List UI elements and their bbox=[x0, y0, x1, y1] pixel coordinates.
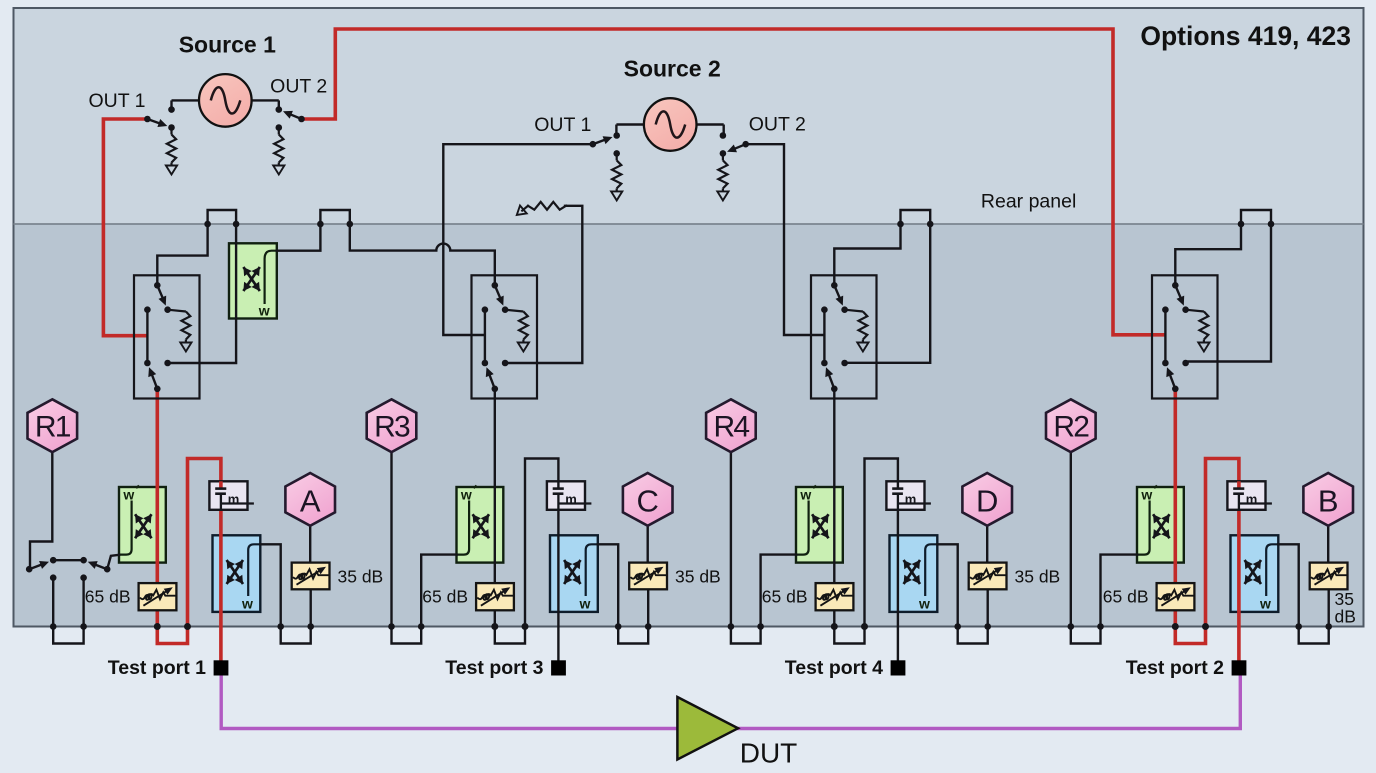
svg-text:dB: dB bbox=[1335, 607, 1356, 627]
front-panel jumper loop (R2 path) bbox=[1071, 627, 1101, 644]
front-panel jumper loop (section 4 source path) bbox=[1175, 627, 1205, 644]
pulse modulator M4 bbox=[1227, 481, 1272, 510]
svg-text:Test port 4: Test port 4 bbox=[785, 657, 883, 679]
svg-text:35 dB: 35 dB bbox=[1015, 566, 1061, 586]
wire: R4 reference tap to coupled port (section 3) bbox=[730, 452, 732, 627]
svg-text:w: w bbox=[460, 486, 472, 502]
switch: Source 2 OUT 2 selector with termination bbox=[717, 132, 749, 200]
front-panel jumper loop (D receiver path) bbox=[958, 627, 988, 644]
svg-text:65 dB: 65 dB bbox=[422, 586, 468, 606]
wire: jumper J4 left leg to port-2 transfer-switch input bbox=[1175, 224, 1241, 283]
coupler: test-port coupler (green, section 1) bbox=[119, 485, 166, 562]
wire: jumper to B attenuator bbox=[1327, 589, 1329, 626]
wire: riser to receiver-coupler chain (section 4) bbox=[1206, 459, 1239, 661]
svg-text:D: D bbox=[976, 483, 998, 518]
svg-text:m: m bbox=[1246, 491, 1258, 506]
receiver tag C (hexagon) bbox=[623, 473, 673, 526]
wire: switch output through coupler and 65 dB step attenuator (section 3) bbox=[833, 391, 835, 627]
wire: receiver coupler coupled port to B attenuator (section 4) bbox=[1278, 544, 1298, 626]
svg-text:Source 2: Source 2 bbox=[624, 56, 721, 82]
wire: link between throw contacts bbox=[53, 559, 83, 561]
front-panel jumper loop (R4 path) bbox=[731, 627, 761, 644]
receiver tag R2 (hexagon) bbox=[1046, 399, 1096, 452]
receiver tag A (hexagon) bbox=[285, 473, 335, 526]
wire: front-panel posts below R1 selector with jumper loop bbox=[50, 574, 87, 643]
svg-text:m: m bbox=[905, 491, 917, 506]
attenuator 65 dB (section 1) bbox=[139, 583, 177, 610]
svg-text:Test port 3: Test port 3 bbox=[445, 657, 543, 679]
coupler: test-port coupler (green, section 2) bbox=[457, 485, 504, 562]
svg-text:OUT 2: OUT 2 bbox=[270, 76, 327, 98]
attenuator 65 dB (section 4) bbox=[1157, 583, 1195, 610]
transfer switch SW3 (port 4) bbox=[811, 275, 877, 398]
coupler U1 upper reference coupler (section 1, green) bbox=[229, 243, 277, 318]
svg-text:OUT 1: OUT 1 bbox=[88, 90, 145, 112]
svg-text:w: w bbox=[918, 596, 930, 612]
test port connector (Test port 2) bbox=[1232, 660, 1247, 675]
node: front-panel jumper posts (section 3 source path) bbox=[831, 623, 838, 630]
front-panel jumper loop (section 2 source path) bbox=[495, 627, 525, 644]
test port connector (Test port 4) bbox=[891, 660, 906, 675]
receiver tag R3 (hexagon) bbox=[367, 399, 417, 452]
pulse modulator M3 bbox=[886, 481, 931, 510]
wire: riser to receiver-coupler chain (section 2) bbox=[525, 459, 558, 661]
coupler: receiver coupler (blue, section 3) bbox=[890, 535, 938, 612]
wire: R3 reference tap to coupled port (section 2) bbox=[390, 452, 392, 627]
wire: D hexagon to attenuator bbox=[986, 524, 988, 563]
receiver tag R1 (hexagon) bbox=[28, 399, 78, 452]
attenuator 35 dB (section 4) bbox=[1310, 563, 1348, 590]
wire: receiver coupler coupled port to D attenuator (section 3) bbox=[937, 544, 957, 626]
signal source Source 1 bbox=[172, 74, 279, 127]
switch: R1 receiver selector pole b bbox=[88, 561, 111, 572]
wire: R2 reference tap to coupled port (section 4) bbox=[1070, 452, 1072, 627]
switch: Source 1 OUT 1 selector with termination bbox=[144, 106, 177, 174]
wire: red path from Source 1 OUT 1 down to port-1 transfer switch bbox=[103, 119, 147, 336]
svg-text:65 dB: 65 dB bbox=[762, 586, 808, 606]
wire: black feed Source 2 OUT 2 to port-4 transfer switch bbox=[746, 144, 823, 335]
wire: DUT output cable to Test port 2 (purple) bbox=[737, 675, 1240, 729]
wire: receiver coupler coupled port to C attenuator (section 2) bbox=[598, 544, 618, 626]
wire: riser to receiver-coupler chain (section 1) bbox=[188, 459, 221, 661]
wire: A hexagon to attenuator bbox=[309, 524, 311, 563]
svg-text:DUT: DUT bbox=[740, 737, 798, 768]
coupler: test-port coupler (green, section 3) bbox=[796, 485, 843, 562]
wire: coupled port of U1 to rear-panel jumper J2 bbox=[277, 224, 321, 251]
node: selector throw B bbox=[80, 557, 87, 564]
wire: R3 jumper riser to coupler coupled port bbox=[421, 555, 456, 627]
svg-text:OUT 1: OUT 1 bbox=[534, 114, 591, 136]
svg-text:OUT 2: OUT 2 bbox=[749, 114, 806, 136]
svg-text:A: A bbox=[300, 483, 321, 518]
coupler: receiver coupler (blue, section 1) bbox=[213, 535, 261, 612]
transfer switch SW1 (port 1) bbox=[134, 275, 200, 398]
attenuator 35 dB (section 3) bbox=[969, 563, 1007, 590]
test port connector (Test port 1) bbox=[214, 660, 229, 675]
attenuator 35 dB (section 2) bbox=[629, 563, 667, 590]
svg-text:w: w bbox=[122, 486, 134, 502]
coupler: receiver coupler (blue, section 4) bbox=[1231, 535, 1279, 612]
wire: receiver coupler coupled port to A attenuator (section 1) bbox=[260, 544, 280, 626]
wire: jumper J4 right leg to port-2 switch common bbox=[1189, 224, 1272, 362]
wire: jumper J1 right leg through reference coupler U1 to switch common bbox=[171, 224, 237, 363]
transfer switch SW2 (port 3) bbox=[472, 275, 538, 398]
front-panel jumper loop (section 1 source path) bbox=[157, 627, 187, 644]
receiver tag D (hexagon) bbox=[962, 473, 1012, 526]
front-panel jumper loop (B receiver path) bbox=[1299, 627, 1329, 644]
switch: Source 2 OUT 1 selector with termination bbox=[590, 132, 623, 200]
pulse modulator M2 bbox=[547, 481, 592, 510]
front-panel jumper loop (R3 path) bbox=[392, 627, 422, 644]
front-panel jumper loop (C receiver path) bbox=[618, 627, 648, 644]
switch: R1 receiver selector pole a bbox=[26, 561, 49, 573]
front-panel jumper loop (A receiver path) bbox=[281, 627, 311, 644]
svg-text:Test port 2: Test port 2 bbox=[1126, 657, 1224, 679]
svg-text:35 dB: 35 dB bbox=[338, 566, 384, 586]
wire: switch output through coupler and 65 dB step attenuator (section 4) bbox=[1174, 391, 1178, 627]
node: selector throw A bbox=[50, 557, 57, 564]
coupler: test-port coupler (green, section 4) bbox=[1137, 485, 1184, 562]
amplifier DUT bbox=[677, 697, 738, 760]
wire: R1 hexagon lead to receiver selector switch bbox=[30, 452, 52, 566]
svg-text:w: w bbox=[799, 486, 811, 502]
svg-text:w: w bbox=[579, 596, 591, 612]
svg-text:R2: R2 bbox=[1053, 411, 1089, 444]
wire: jumper J3 right leg to port-4 switch common bbox=[848, 224, 931, 363]
wire: jumper J1 left leg to transfer-switch input bbox=[157, 224, 207, 283]
front-panel jumper loop (section 3 source path) bbox=[834, 627, 864, 644]
wire: jumper J3 left leg to port-4 transfer-switch input bbox=[834, 224, 900, 283]
rear-panel jumper J2 (section 1/2 link) bbox=[320, 210, 349, 224]
svg-text:C: C bbox=[637, 483, 659, 518]
svg-text:w: w bbox=[1259, 596, 1271, 612]
wire: jumper J2 to port-3 transfer-switch input (hops over Source 2 OUT 1 feed) bbox=[350, 224, 495, 283]
coupler: receiver coupler (blue, section 2) bbox=[550, 535, 598, 612]
svg-text:w: w bbox=[258, 303, 270, 319]
wire: jumper to A attenuator bbox=[310, 589, 312, 626]
attenuator 65 dB (section 2) bbox=[476, 583, 514, 610]
wire: R2 jumper riser to coupler coupled port bbox=[1101, 555, 1138, 627]
receiver tag R4 (hexagon) bbox=[706, 399, 756, 452]
wire: DUT input cable from Test port 1 (purple) bbox=[221, 674, 678, 729]
svg-text:m: m bbox=[565, 491, 577, 506]
svg-text:m: m bbox=[228, 491, 240, 506]
attenuator 35 dB (section 1) bbox=[292, 563, 330, 590]
svg-text:Test port 1: Test port 1 bbox=[108, 657, 206, 679]
svg-text:Rear panel: Rear panel bbox=[981, 191, 1076, 213]
wire: jumper to C attenuator bbox=[647, 589, 649, 626]
wire: C hexagon to attenuator bbox=[647, 524, 649, 563]
wire: riser to receiver-coupler chain (section 3) bbox=[865, 459, 898, 661]
svg-text:w: w bbox=[241, 596, 253, 612]
wire: switch output through coupler and 65 dB step attenuator (section 2) bbox=[494, 391, 496, 627]
resistor: rear-panel termination (section 2) bbox=[528, 202, 566, 210]
receiver tag B (hexagon) bbox=[1303, 473, 1353, 526]
wire: R4 jumper riser to coupler coupled port bbox=[761, 555, 796, 627]
switch: Source 1 OUT 2 selector with termination bbox=[273, 106, 305, 174]
rear-panel jumper J1 (section 1) bbox=[208, 210, 237, 224]
rear-panel jumper J3 (section 3) bbox=[901, 210, 931, 224]
rear-panel jumper J4 (section 4) bbox=[1241, 210, 1271, 224]
svg-text:65 dB: 65 dB bbox=[1103, 586, 1149, 606]
svg-text:R4: R4 bbox=[714, 411, 750, 444]
signal source Source 2 bbox=[616, 98, 723, 151]
wire: black feed Source 2 OUT 1 to port-3 transfer switch bbox=[443, 144, 593, 335]
svg-text:35 dB: 35 dB bbox=[675, 566, 721, 586]
transfer switch SW4 (port 2) bbox=[1152, 275, 1218, 398]
wire: B hexagon to attenuator bbox=[1327, 524, 1329, 563]
test port connector (Test port 3) bbox=[551, 660, 566, 675]
node: front-panel jumper posts (section 4 source path) bbox=[1172, 623, 1179, 630]
wire: jumper to D attenuator bbox=[987, 589, 989, 626]
svg-text:R3: R3 bbox=[374, 411, 410, 444]
svg-text:R1: R1 bbox=[35, 411, 71, 444]
node: front-panel jumper posts (section 1 source path) bbox=[154, 623, 161, 630]
svg-text:Options 419, 423: Options 419, 423 bbox=[1140, 21, 1351, 51]
wire: red path from Source 1 OUT 2 along top edge down to port-2 transfer switch bbox=[302, 29, 1164, 335]
svg-text:w: w bbox=[1140, 486, 1152, 502]
wire: rear termination to port-3 switch common bbox=[508, 206, 582, 363]
node: front-panel jumper posts (section 2 source path) bbox=[491, 623, 498, 630]
svg-text:65 dB: 65 dB bbox=[85, 586, 131, 606]
attenuator 65 dB (section 3) bbox=[816, 583, 854, 610]
pulse modulator M1 bbox=[209, 481, 254, 510]
wire: switch output through coupler and 65 dB step attenuator (section 1) bbox=[156, 391, 160, 627]
svg-text:B: B bbox=[1318, 483, 1339, 518]
svg-text:Source 1: Source 1 bbox=[179, 32, 276, 58]
wire: selector pole b to coupled port of section-1 coupler bbox=[107, 555, 119, 569]
